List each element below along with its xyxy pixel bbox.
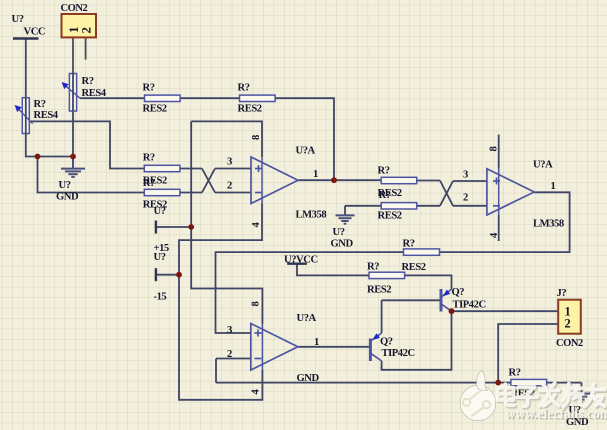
resistor RG RES2 feedback xyxy=(404,249,440,255)
svg-text:RES4: RES4 xyxy=(82,88,107,99)
wire GND rail along bottom xyxy=(216,382,582,384)
resistor RB RES2 xyxy=(240,95,276,101)
svg-text:R?: R? xyxy=(238,83,250,94)
svg-text:R?: R? xyxy=(143,153,155,164)
svg-text:U?A: U?A xyxy=(296,146,316,157)
svg-text:R?: R? xyxy=(143,83,155,94)
resistor RE RES2 xyxy=(381,177,417,183)
wire Q2 emitter short drop xyxy=(381,361,383,370)
wire pot2 wiper to resistor row A xyxy=(80,97,145,99)
svg-text:TIP42C: TIP42C xyxy=(382,348,415,359)
svg-text:RES2: RES2 xyxy=(238,104,262,115)
watermark text: dian zi fa shao you (drawn strokes) xyxy=(497,383,605,408)
svg-text:VCC: VCC xyxy=(24,27,46,38)
junction at -15 node xyxy=(176,272,182,278)
wire +15 riser and branch to op-amp U3 pin8 xyxy=(191,121,262,323)
svg-text:U?: U? xyxy=(59,180,71,191)
svg-text:U?A: U?A xyxy=(297,313,317,324)
svg-text:R?: R? xyxy=(378,166,390,177)
svg-text:RES4: RES4 xyxy=(34,110,59,121)
svg-text:R?: R? xyxy=(143,178,155,189)
wire branch from node to lower resistor row xyxy=(38,157,145,193)
wire row F into X crossing at U2 xyxy=(417,181,487,206)
wire pot2 bottom to GND node xyxy=(72,111,74,157)
junction at VCC divider branch xyxy=(35,154,41,160)
wire pot1 wiper to row C xyxy=(29,121,145,168)
svg-text:U?: U? xyxy=(154,252,166,263)
junction at pot2 bottom / ground node xyxy=(70,154,76,160)
transistor Q1 TIP42C xyxy=(441,289,452,312)
svg-text:2: 2 xyxy=(227,349,232,360)
svg-text:RES2: RES2 xyxy=(143,104,167,115)
junction at +15 node xyxy=(188,224,194,230)
svg-text:8: 8 xyxy=(489,147,500,152)
power port -15 bar xyxy=(155,268,157,281)
svg-text:LM358: LM358 xyxy=(296,210,327,221)
watermark logo circle xyxy=(460,371,496,421)
resistor RA RES2 xyxy=(145,95,181,101)
junction at Q1 emitter node xyxy=(449,308,455,314)
resistor RF RES2 xyxy=(381,203,417,209)
svg-text:2: 2 xyxy=(463,193,468,204)
svg-text:8: 8 xyxy=(251,302,262,307)
svg-text:RES2: RES2 xyxy=(402,262,426,273)
wire GND rail branch up to connector J pin2 xyxy=(498,324,558,383)
ground symbol left (U? GND) xyxy=(61,157,85,177)
svg-text:-15: -15 xyxy=(154,292,167,303)
potentiometer R1 RES4 body xyxy=(15,98,33,134)
wire op-amp U2 pin4 stub xyxy=(498,215,500,241)
svg-text:CON2: CON2 xyxy=(556,338,583,349)
wire right GND symbol drop xyxy=(581,383,583,394)
wire resistor B to feedback drop into output node xyxy=(275,98,334,180)
resistor RH RES2 base xyxy=(369,272,405,278)
svg-text:U?A: U?A xyxy=(533,160,553,171)
wire between resistor A and B xyxy=(180,97,239,99)
svg-text:2: 2 xyxy=(565,317,571,331)
power port VCC small bar (U?VCC) xyxy=(287,263,307,265)
svg-text:R?: R? xyxy=(82,76,94,87)
svg-text:2: 2 xyxy=(79,27,94,33)
svg-text:Q?: Q? xyxy=(452,287,465,298)
junction at op-amp U1 output node xyxy=(331,177,337,183)
svg-text:J?: J? xyxy=(557,288,567,299)
svg-text:U?: U? xyxy=(333,227,345,238)
wire op-amp U3 output to Q2 base xyxy=(298,346,369,348)
svg-text:TIP42C: TIP42C xyxy=(453,300,486,311)
transistor Q2 TIP42C xyxy=(370,333,381,361)
resistor RC RES2 xyxy=(144,165,180,171)
wire +15 bar to node xyxy=(156,226,191,228)
svg-text:www.elecfans.com: www.elecfans.com xyxy=(506,406,607,421)
wire Q1 base to Q2 collector riser xyxy=(382,300,440,333)
svg-text:U?: U? xyxy=(154,206,166,217)
svg-text:R?: R? xyxy=(379,190,391,201)
svg-text:3: 3 xyxy=(227,325,232,336)
wire op-amp U2 output feedback through RES2 G to op-amp U3 pin3 xyxy=(216,192,570,333)
wire VCC port to RES2 H and Q1 top xyxy=(297,264,452,290)
svg-text:R?: R? xyxy=(367,262,379,273)
wire row C into X crossing xyxy=(180,169,251,193)
wire VCC rail down from power bar xyxy=(26,39,73,157)
svg-text:CON2: CON2 xyxy=(61,3,88,14)
svg-text:GND: GND xyxy=(56,192,79,203)
svg-text:R?: R? xyxy=(403,239,415,250)
svg-text:3: 3 xyxy=(463,170,468,181)
power port +15 bar xyxy=(155,221,157,234)
svg-text:1: 1 xyxy=(551,181,556,192)
wire -15 bar to node xyxy=(156,274,179,276)
connector P1 CON2 top xyxy=(62,14,97,74)
wire op-amp U1 pin4 loop to -15 riser and op-amp U3 pin4 xyxy=(179,204,262,400)
wire op-amp U3 pin2 to GND rail xyxy=(216,359,251,383)
op-amp U1 LM358 triangle xyxy=(251,157,298,204)
svg-text:LM358: LM358 xyxy=(533,219,564,230)
wire op-amp U1 pin8 to +15 riser xyxy=(191,121,262,157)
svg-text:Q?: Q? xyxy=(380,337,393,348)
wire op-amp U1 output to row E xyxy=(298,179,381,181)
svg-text:R?: R? xyxy=(34,99,46,110)
wire row D into X crossing xyxy=(180,169,251,193)
connector J1 CON2 right xyxy=(558,300,581,334)
svg-text:GND: GND xyxy=(297,373,320,384)
svg-text:3: 3 xyxy=(227,157,232,168)
svg-text:RES2: RES2 xyxy=(367,285,391,296)
ground symbol middle (U? GND at op-amp U2 input) xyxy=(336,215,355,223)
resistor RI RES2 bottom right xyxy=(511,379,547,385)
svg-text:U?VCC: U?VCC xyxy=(284,255,318,266)
op-amp U2 LM358 triangle xyxy=(487,169,534,215)
junction at GND rail / connector branch xyxy=(495,380,501,386)
svg-text:1: 1 xyxy=(313,169,318,180)
ground symbol right (U? GND bottom right) xyxy=(573,394,590,403)
wire row F left end to mid ground xyxy=(345,206,381,216)
svg-text:8: 8 xyxy=(251,135,262,140)
potentiometer R2 RES4 body xyxy=(62,74,80,112)
svg-text:U?: U? xyxy=(12,14,24,25)
svg-text:GND: GND xyxy=(331,239,354,250)
svg-text:R?: R? xyxy=(509,368,521,379)
resistor RD RES2 xyxy=(144,189,180,195)
wire row E into X crossing at U2 xyxy=(417,181,487,206)
op-amp U3 LM358 triangle xyxy=(251,324,298,371)
power port VCC top-left bar xyxy=(13,37,39,39)
wire Q1 emitter node to connector J pin1 and down around to Q2 xyxy=(382,311,559,370)
wire op-amp U2 pin8 stub xyxy=(498,135,500,169)
svg-text:1: 1 xyxy=(314,337,319,348)
svg-text:RES2: RES2 xyxy=(378,211,402,222)
svg-text:2: 2 xyxy=(227,181,232,192)
